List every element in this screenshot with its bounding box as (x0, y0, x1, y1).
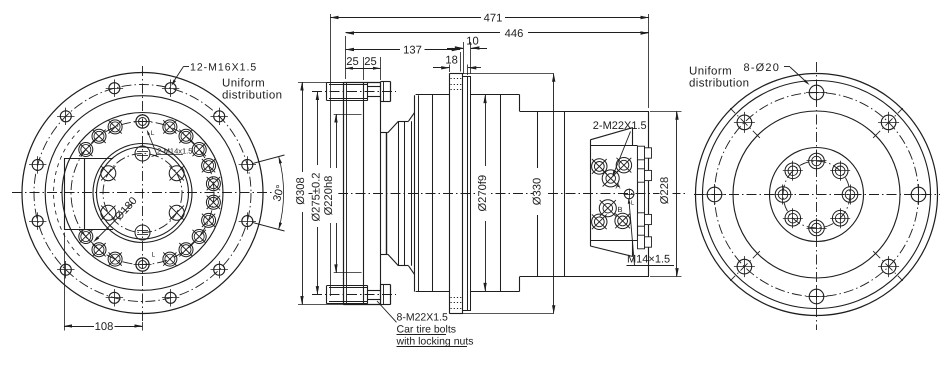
left view: horizontal centerline (12, 192, 272, 194)
section C seam x537 (537, 111, 539, 276)
right view horizontal centerline (694, 194, 940, 196)
stud bolt circle centerline bottom (312, 294, 396, 296)
svg-text:with locking nuts: with locking nuts (396, 336, 474, 348)
dimension D275+-0.2 (311, 92, 326, 295)
dimension 25|25 plate thickness (345, 56, 380, 80)
label 12-M16X1.5 with leader (171, 62, 257, 86)
8x inner hub screws (773, 151, 860, 238)
right view diagonal centerline 45 (730, 108, 903, 281)
svg-text:distribution: distribution (689, 78, 749, 90)
12x M16 bolt holes on r108.5 circle (29, 80, 256, 307)
middle view horizontal centerline (303, 193, 686, 195)
svg-text:25: 25 (364, 56, 376, 68)
svg-text:471: 471 (484, 13, 503, 25)
svg-text:12-M16X1.5: 12-M16X1.5 (190, 62, 257, 74)
svg-text:distribution: distribution (222, 90, 282, 102)
svg-text:B: B (618, 205, 623, 214)
svg-text:L: L (152, 252, 156, 259)
dimension 10 (447, 35, 487, 74)
bolt tabs on right face (638, 146, 652, 249)
body section B top edge (471, 94, 520, 96)
right view second circle (703, 81, 931, 309)
dimension 446 (346, 28, 650, 79)
left view hub double circle inner (97, 147, 189, 239)
left view circle r97 (45, 96, 240, 291)
8x D20 bolt holes (704, 82, 929, 307)
M14 oil port top (on r71.5) (134, 115, 152, 128)
body right end face (648, 111, 650, 276)
label Uniform distribution (right view) (689, 66, 749, 90)
dimension 137 (346, 45, 461, 72)
svg-text:Ø220h8: Ø220h8 (323, 176, 335, 216)
svg-text:Ø228: Ø228 (659, 177, 671, 204)
svg-text:Car tire bolts: Car tire bolts (397, 324, 457, 336)
label D180 rotated with leader arrow (93, 195, 140, 242)
car tire stud bottom (8-M22X1.5) (327, 285, 391, 305)
label Uniform distribution (left view) (222, 78, 282, 102)
dimension D220h8 (323, 114, 361, 273)
left view outer circle (flange OD) (22, 73, 263, 314)
ring gear flange column (450, 73, 463, 314)
dimension 471 (330, 13, 649, 297)
left view keyway rectangle (64, 158, 113, 230)
right view hub circle (770, 148, 864, 242)
left view dash-dot circle (180 screw ring) (71, 122, 214, 265)
ring gear hatch dots top (451, 79, 463, 90)
step vertical at x519 (519, 95, 521, 112)
gearbox body left face (414, 95, 416, 291)
body section A bottom edge (416, 291, 450, 293)
motor terminal block (590, 128, 637, 257)
30 degree angular dimension (253, 155, 287, 231)
body seam at x432 (432, 94, 434, 291)
left view hidden dashed arc (keyway boss) (54, 130, 80, 256)
svg-text:Ø330: Ø330 (532, 178, 544, 205)
body section A top edge (416, 94, 450, 96)
port B screw (599, 200, 616, 217)
right view inner screws bolt circle (783, 161, 850, 228)
svg-text:Uniform: Uniform (222, 78, 265, 90)
svg-text:A: A (616, 182, 621, 191)
dimension D308 (295, 82, 344, 305)
right view inner circle r83 (733, 111, 900, 278)
dimension D330 (463, 73, 556, 314)
stud bolt circle centerline top (312, 91, 396, 93)
body section C bottom edge (520, 276, 649, 278)
svg-text:25: 25 (346, 56, 358, 68)
svg-text:Ø308: Ø308 (295, 177, 307, 204)
right view bolt circle dash-dot (715, 93, 919, 297)
socket screws on r71.5 circle (16 visible) (79, 120, 221, 266)
svg-text:446: 446 (505, 28, 524, 40)
svg-text:18: 18 (445, 55, 457, 67)
label 2-M14x1.5 with leaders (147, 130, 193, 157)
port A screw (602, 170, 619, 187)
ring gear tab B (463, 76, 471, 311)
label 8-M22X1.5 / Car tire bolts / with locking nuts with leader (377, 301, 474, 348)
svg-text:Uniform: Uniform (689, 66, 732, 78)
dimension D228 (650, 111, 682, 276)
dimension 18 (433, 55, 481, 75)
svg-text:137: 137 (403, 45, 422, 57)
label M14x1.5 with underline and leader (627, 198, 675, 266)
svg-text:L: L (151, 130, 155, 137)
svg-text:108: 108 (95, 321, 114, 333)
car tire stud top (8-M22X1.5) (327, 82, 391, 102)
body section B bottom edge (471, 291, 520, 293)
body section C top edge (520, 111, 649, 113)
svg-text:Ø270f9: Ø270f9 (477, 175, 489, 212)
left view bolt circle dash-dot (12-M16 holes) (34, 85, 251, 302)
label 8-D20 with leader (744, 62, 810, 85)
dimension D270f9 (477, 95, 490, 292)
section C seam x564 (564, 111, 566, 276)
svg-text:8-M22X1.5: 8-M22X1.5 (397, 312, 449, 324)
L port M14 small circle (624, 189, 635, 200)
ring gear hatch dots bottom (451, 298, 463, 309)
dimension 108 at bottom of left view (64, 233, 143, 333)
body seam at x500 (500, 95, 502, 292)
6x inner screws on r39.5 circle (101, 146, 184, 240)
label 2-M22X1.5 with leader (593, 120, 647, 177)
left view circle r83 (62, 113, 223, 274)
right view outer circle (696, 74, 938, 316)
output hub profile with chamfers (381, 112, 415, 274)
M14 oil port bottom (on r71.5) (134, 258, 152, 271)
svg-text:Ø275±0.2: Ø275±0.2 (311, 172, 323, 221)
block corner screws (592, 158, 632, 230)
left view: vertical centerline (142, 66, 144, 322)
left view hub double circle outer (93, 144, 192, 243)
svg-text:10: 10 (466, 35, 478, 47)
left view inner screw ring dash-dot circle (103, 154, 182, 233)
svg-text:2-M22X1.5: 2-M22X1.5 (593, 120, 647, 132)
right view vertical centerline (816, 62, 818, 330)
flange plates (two 25mm slabs) (344, 82, 381, 305)
svg-text:8-Ø20: 8-Ø20 (744, 62, 781, 74)
